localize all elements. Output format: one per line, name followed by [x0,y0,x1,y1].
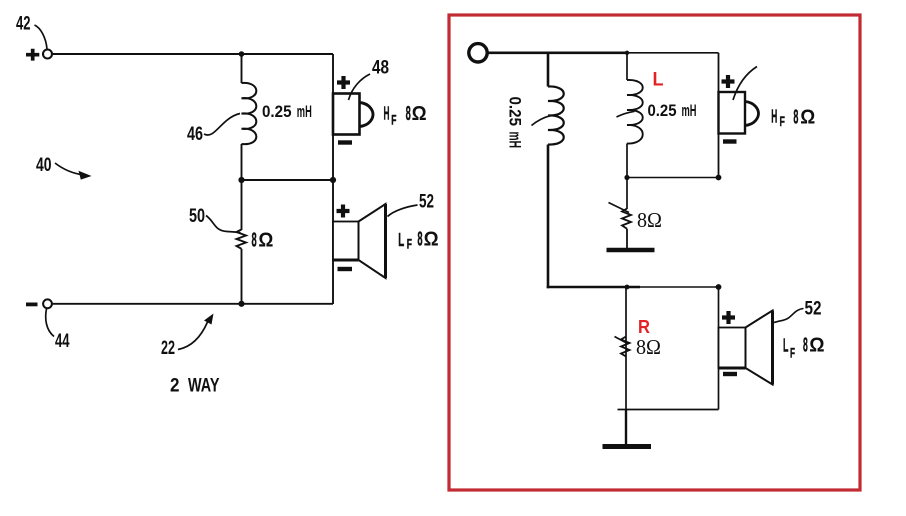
resistor RH 8Ω [609,203,632,229]
svg-text:46: 46 [187,124,203,145]
wire [241,180,243,230]
svg-text:Ω: Ω [424,229,439,251]
svg-text:52: 52 [805,299,822,320]
inductor L1 0.25 mH [548,86,564,144]
inductor L2 0.25 mH [627,80,643,144]
terminal input [469,44,487,62]
wire mid [242,179,334,181]
wire [626,53,628,80]
terminal 44 (-) [26,299,52,308]
wire thick top [488,51,628,54]
polarity - [338,267,353,271]
speaker HF tweeter right [719,92,759,134]
wire [718,53,720,178]
speaker 48 HF tweeter [333,94,373,135]
junction [238,177,244,183]
polarity - [338,140,352,144]
inductor 46 0.25 mH [242,83,257,144]
label 40 [36,155,92,180]
polarity - [723,139,737,143]
label 52 [388,192,435,217]
svg-text:H: H [384,103,390,123]
junction cross [618,409,627,411]
speaker 52 LF woofer right [719,311,773,385]
wire [626,229,628,248]
resistor R 8Ω [615,337,630,357]
junction [624,175,629,180]
wire [627,286,719,288]
svg-text:50: 50 [189,206,205,227]
label 22 [161,314,214,360]
svg-text:Ω: Ω [809,335,824,357]
label 44 [46,309,70,353]
value 0.25 mH [617,101,697,120]
label LF 8Ω right [783,335,825,361]
svg-text:R: R [638,316,650,337]
svg-text:8Ω: 8Ω [636,335,661,359]
svg-text:44: 44 [55,331,70,352]
polarity + [337,76,350,89]
wire [718,287,720,410]
svg-text:mH: mH [506,132,525,149]
label 46 [187,114,240,146]
polarity + [722,75,735,88]
svg-text:F: F [780,113,786,129]
junction [239,51,245,57]
junction [625,51,629,55]
svg-text:0.25: 0.25 [506,97,525,127]
speaker 52 LF woofer [333,204,386,278]
junction [330,177,336,183]
svg-text:mH: mH [682,101,697,120]
svg-text:Ω: Ω [412,103,427,125]
wire [626,409,719,411]
terminal 42 (+) [26,49,52,61]
junction [625,285,630,290]
wire right branch [332,54,334,304]
resistor 50 8Ω [237,230,247,249]
svg-text:8: 8 [803,335,808,357]
label 52 right [774,299,822,323]
label HF 8Ω [384,103,427,128]
wire top left [52,53,333,55]
svg-text:8: 8 [252,230,257,252]
value 0.25 mH rotated [506,97,551,149]
wire [241,144,243,180]
ground [603,444,652,449]
polarity + [337,205,350,218]
svg-text:42: 42 [16,14,31,35]
svg-text:L: L [398,230,404,250]
svg-text:WAY: WAY [188,375,220,397]
svg-text:H: H [771,106,777,126]
svg-text:F: F [407,236,412,252]
svg-text:mH: mH [297,102,312,121]
junction [716,284,722,290]
wire [627,177,719,179]
svg-text:52: 52 [419,192,434,213]
svg-text:F: F [391,112,396,128]
wire [241,249,243,304]
svg-text:8Ω: 8Ω [637,208,662,232]
wire [241,54,243,83]
wire [625,287,627,410]
label LF 8Ω [398,229,438,252]
label 42 [16,14,47,50]
svg-text:0.25: 0.25 [648,101,677,120]
leader line [733,67,757,101]
svg-text:8: 8 [406,103,411,125]
junction [238,301,244,307]
svg-text:40: 40 [36,155,52,176]
svg-text:Ω: Ω [800,106,815,128]
wire elbow [547,286,640,289]
wire [626,178,628,210]
wire [627,52,719,54]
svg-text:L: L [653,70,664,91]
svg-text:0.25: 0.25 [262,102,292,121]
wire [547,145,550,289]
wire [625,410,627,445]
svg-text:22: 22 [161,338,175,359]
svg-text:F: F [790,345,795,361]
svg-text:L: L [783,336,788,356]
label 50 [189,206,241,233]
wire [626,144,628,178]
label HF 8Ω right [771,106,815,129]
svg-text:Ω: Ω [258,230,273,252]
svg-text:2: 2 [170,375,180,397]
wire [547,53,550,87]
svg-text:48: 48 [372,58,389,79]
svg-text:8: 8 [793,106,798,128]
ground [607,248,655,253]
wire bottom left [52,303,333,305]
svg-text:8: 8 [417,229,422,251]
polarity + [722,311,735,324]
polarity - [723,372,737,376]
label 48 [349,58,390,101]
junction [716,175,722,181]
